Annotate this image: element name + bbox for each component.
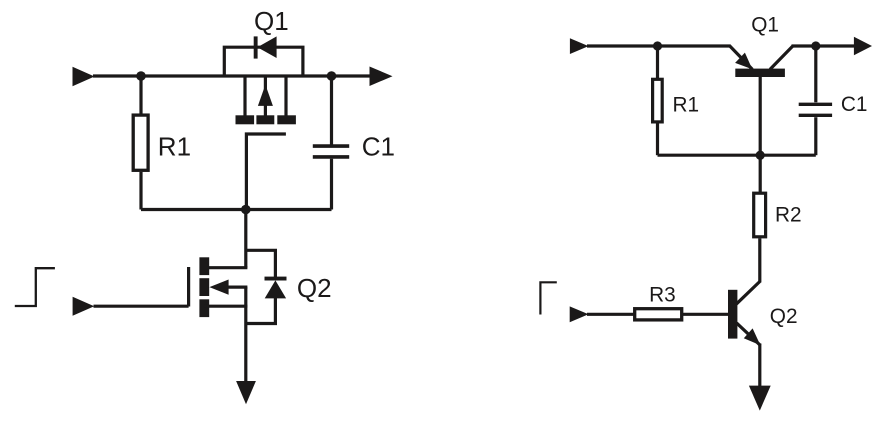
diode of Q2: anode triangle (265, 280, 286, 298)
wire: R1 top lead (139, 76, 142, 115)
svg-text:C1: C1 (841, 93, 868, 116)
svg-text:Q2: Q2 (297, 273, 332, 303)
output arrow (left circuit) (370, 67, 393, 87)
wire: input to R3 (587, 313, 635, 316)
wire: C1 bottom lead (right) (814, 117, 817, 155)
input arrow (right circuit, base input) (570, 306, 589, 322)
wire: R2 bottom lead (758, 238, 761, 282)
capacitor C1 (right) top plate (799, 103, 832, 106)
node: base junction (756, 151, 765, 160)
svg-text:Q1: Q1 (751, 13, 779, 36)
transistor Q1 base bar (735, 69, 785, 77)
wire: Q2 emitter down to ground (758, 344, 761, 388)
node: gate junction on bottom rail (241, 205, 251, 215)
wire: Q2 body lead (227, 286, 247, 289)
mosfet Q2 channel pad (middle) (199, 278, 209, 296)
wire: Q1 base down to node (759, 77, 762, 193)
capacitor C1 (left) bottom plate (313, 155, 349, 159)
node: right rail / R1 junction (653, 41, 662, 50)
wire: right top rail (right part) (792, 44, 856, 47)
input arrow (right circuit, top input) (570, 38, 589, 54)
output arrow (right circuit) (854, 37, 872, 55)
node: left rail / C1 junction (327, 71, 337, 81)
capacitor C1 (left) top plate (313, 144, 349, 148)
mosfet Q2 gate electrode (187, 267, 190, 307)
mosfet Q1 body terminal with arrow (264, 76, 267, 116)
wire: R1 top lead (right) (656, 46, 659, 79)
transistor Q2 base bar (728, 290, 737, 339)
capacitor C1 (right) bottom plate (799, 114, 832, 117)
wire: Q2 base lead (682, 313, 729, 316)
mosfet Q1 channel pad (right) (277, 115, 296, 124)
ground arrow (left circuit) (236, 381, 256, 404)
transistor Q2 collector lead (736, 282, 760, 305)
input arrow (left circuit, top input) (73, 67, 95, 86)
svg-text:C1: C1 (362, 132, 395, 162)
mosfet Q2 channel pad (bottom) (199, 299, 209, 317)
mosfet Q2 body arrow (209, 280, 228, 295)
resistor R2 (754, 193, 766, 237)
wire: Q2 body-diode branch (bottom) (246, 298, 276, 324)
ground arrow (right circuit) (749, 386, 771, 411)
mosfet Q1 gate electrode and wire down to node (246, 134, 286, 210)
input arrow (left circuit, gate input) (73, 297, 95, 316)
wire: Q2 gate input line (94, 305, 189, 308)
mosfet Q1 channel pad (middle) (256, 115, 274, 124)
wire: node down to Q2 drain (244, 210, 247, 268)
node: left rail / R1 junction (136, 71, 146, 81)
diode of Q1: cathode bar (254, 36, 258, 58)
mosfet Q2 channel pad (top) (199, 257, 209, 275)
svg-text:R3: R3 (649, 284, 676, 307)
resistor R3 (635, 309, 682, 320)
resistor R1 (right) (653, 79, 663, 122)
svg-text:R1: R1 (158, 132, 191, 162)
wire: right base rail (R1 to C1) (658, 154, 816, 157)
transistor Q1 emitter lead with arrow (730, 46, 753, 69)
wire: Q2 body-diode branch (top) (246, 250, 276, 277)
step waveform symbol (right) (540, 282, 556, 314)
resistor R1 (left) (133, 115, 148, 170)
wire: C1 top lead (right) (814, 46, 817, 102)
mosfet Q1 drain stub (243, 76, 246, 116)
wire: C1 top lead (330, 76, 333, 145)
svg-text:Q1: Q1 (254, 6, 289, 36)
wire: Q2 source down to ground (244, 287, 247, 382)
mosfet Q1 channel pad (left) (236, 115, 255, 124)
node: right rail / C1 junction (811, 41, 820, 50)
wire: Q2 source lead (204, 305, 247, 308)
transistor Q2 emitter lead with arrow (737, 323, 761, 345)
mosfet Q1 source stub (284, 76, 287, 116)
transistor Q1 collector lead (770, 46, 793, 69)
svg-text:R1: R1 (673, 94, 700, 117)
svg-text:R2: R2 (775, 204, 802, 227)
wire: C1 bottom lead (330, 159, 333, 210)
wire: Q1 body-diode loop (224, 47, 303, 76)
wire: left top rail (93, 74, 371, 77)
wire: R1 bottom lead (right) (656, 122, 659, 155)
wire: right top rail (left part) (587, 44, 731, 47)
wire: Q2 drain lead (204, 266, 247, 269)
diode of Q2: cathode bar (265, 277, 287, 281)
diode of Q1: anode triangle (257, 36, 276, 58)
wire: left bottom rail (R1 to C1) (141, 208, 332, 211)
svg-text:Q2: Q2 (770, 305, 798, 328)
wire: R1 bottom lead (139, 172, 142, 210)
step waveform symbol (left) (15, 268, 55, 306)
